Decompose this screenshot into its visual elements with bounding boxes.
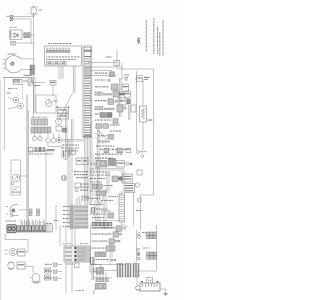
- wire horn bus: [25, 266, 33, 268]
- harness row 30: [85, 127, 91, 128]
- row y108 dot1: [124, 107, 126, 109]
- mr extra box y161: [101, 161, 106, 165]
- bmr row3 label: [92, 241, 94, 242]
- wire S1 to bus: [15, 42, 33, 44]
- magneto M1 sub: [11, 182, 14, 185]
- mr small y191b: [102, 191, 106, 195]
- left small box rows: [47, 227, 52, 231]
- harness row 2: [85, 58, 90, 59]
- harness row 17: [85, 95, 90, 96]
- mr row y208: [96, 209, 98, 210]
- stk row 2 xbox: [71, 210, 74, 213]
- wire drop x117: [116, 50, 118, 68]
- battery lead right: [160, 289, 166, 294]
- fr lamp y200: [137, 198, 141, 202]
- rr cluster2 text: [143, 248, 145, 249]
- rb bar y141: [98, 141, 110, 143]
- wire unit drop: [52, 85, 54, 96]
- heater bottom wire: [122, 222, 128, 227]
- bundle wire 3: [87, 138, 89, 205]
- bmr wire x110: [109, 243, 111, 265]
- legend line 4: [158, 32, 161, 35]
- rr cluster2 marks: [137, 252, 141, 260]
- text above fuse panel: [63, 243, 64, 244]
- junction box J1: [114, 60, 120, 66]
- switch contact pin 8: [68, 48, 69, 49]
- fuse panel labels: [65, 247, 73, 260]
- instrument bottom cluster: [29, 147, 55, 152]
- conn pair A2: [29, 213, 32, 216]
- harness row 10: [85, 78, 90, 79]
- rr cluster1 text: [142, 232, 144, 233]
- left label row 3: [63, 151, 64, 152]
- unit box top label: [51, 82, 56, 83]
- bulb B0: [56, 119, 62, 125]
- tail tick b: [6, 213, 8, 216]
- indicator bulb 2: [38, 137, 42, 141]
- rb diag fan: [95, 127, 108, 144]
- mr extra row y210: [101, 211, 103, 212]
- switch contact c7: [65, 50, 67, 52]
- stk row 1 label: [63, 206, 65, 207]
- rectifier D1 label: [10, 31, 11, 38]
- relay RB2 text: [59, 115, 68, 116]
- conn pair A1: [29, 209, 32, 212]
- resistor pack 2: [125, 264, 131, 278]
- tail lamp reflector: [10, 205, 18, 216]
- pilot conn x1: [14, 80, 16, 82]
- wire stop lamp hook: [31, 277, 33, 279]
- wire wr bus: [25, 251, 28, 253]
- mr diag fan: [90, 152, 101, 169]
- unit box top: [50, 81, 56, 86]
- mr right edge x133.5: [133, 193, 135, 226]
- wire inner bus x27: [26, 95, 28, 232]
- fr top label: [144, 77, 150, 78]
- mr dot y164: [130, 163, 132, 165]
- left label row 1: [62, 145, 64, 146]
- row y99 box1: [108, 99, 114, 105]
- magneto M1 arrow: [15, 177, 19, 180]
- small box tri: [28, 79, 33, 84]
- bm left row xbox 2: [54, 270, 57, 273]
- text above fuse panel r: [80, 243, 82, 244]
- mr bus y220.5: [95, 220, 120, 222]
- mr top row1 boxB: [117, 148, 122, 153]
- switch contact pin 2: [50, 48, 51, 49]
- band-end unit circles: [8, 227, 15, 231]
- resistor pack 1: [117, 264, 123, 278]
- headlamp LP1 reflector arc: [5, 56, 20, 73]
- label rows a3: [76, 177, 78, 178]
- rb box y124b: [103, 124, 109, 128]
- rear conn text a: [45, 270, 50, 271]
- wire PL2 lead: [8, 107, 18, 110]
- wire to packs: [101, 270, 117, 272]
- rr cluster2 pin: [137, 248, 140, 251]
- winker box text: [18, 251, 24, 252]
- RB pin b: [68, 106, 70, 108]
- row y79 text: [95, 80, 97, 81]
- mr row y174: [90, 175, 92, 176]
- switch contact c2: [49, 50, 51, 52]
- bm left row text 1: [45, 264, 48, 265]
- headlamp tick b: [3, 63, 5, 66]
- harness row 31: [85, 130, 91, 131]
- wire PL1 lead: [8, 97, 13, 100]
- tail tick a: [6, 205, 8, 208]
- mr box y160: [96, 161, 107, 168]
- bmr row3 box: [109, 239, 115, 244]
- bm left row wire 2: [57, 271, 62, 273]
- aux box dots: [148, 280, 152, 281]
- indicator bulb 1: [33, 137, 37, 141]
- bundle wire 1: [84, 138, 86, 205]
- indicator box C: [61, 62, 66, 65]
- wire left bus 2: [34, 77, 36, 113]
- stk row 2 bar: [75, 210, 89, 212]
- pilot lamp PL2: [18, 103, 24, 109]
- mr pair x104: [103, 189, 105, 229]
- left enclosure outline: [4, 78, 31, 151]
- switch contact pin 1: [47, 48, 48, 49]
- mr hatch y205: [91, 208, 95, 213]
- harness row 16: [85, 93, 91, 94]
- indicator box A text: [48, 63, 52, 64]
- stk row 1 xbox: [71, 206, 74, 209]
- rectifier D1 body: [10, 30, 23, 40]
- bmr hatch box: [90, 258, 95, 264]
- wire drop x122: [121, 63, 123, 81]
- band1 labels: [32, 117, 34, 118]
- small box tri text: [28, 85, 30, 86]
- small box y183: [75, 183, 81, 188]
- row y84 box1: [112, 84, 119, 90]
- band tick pair 7: [43, 220, 44, 226]
- band tick pair 6: [40, 220, 41, 226]
- bm xbox r2: [101, 279, 104, 282]
- label rows b2: [81, 187, 83, 188]
- lamp I5 stem: [53, 134, 55, 139]
- regulator text3: [125, 190, 134, 191]
- horn H1 outer arcs: [30, 6, 38, 15]
- stk row 5 bar: [75, 222, 89, 224]
- terminal strip dark band: [17, 226, 46, 232]
- fr cluster y210: [136, 210, 138, 211]
- mr bottom band: [92, 222, 112, 226]
- mr drop x124: [123, 169, 125, 185]
- harness row 25: [85, 115, 92, 116]
- stk left marks: [54, 220, 55, 221]
- mr box y184a: [92, 184, 97, 189]
- gauge G2: [61, 175, 66, 180]
- relay box RB1: [58, 108, 69, 114]
- coil scribble: [13, 187, 19, 190]
- switch contact pin 3: [53, 48, 54, 49]
- harness row 3: [85, 61, 90, 62]
- bm hook wire: [94, 289, 97, 294]
- harness row 22: [85, 107, 91, 108]
- bmr row1 box: [116, 226, 122, 231]
- wire fr x140.5: [140, 195, 142, 230]
- mr top row3: [95, 158, 97, 159]
- bundle wire 4: [88, 138, 90, 205]
- switch contact c4: [55, 50, 57, 52]
- fr lamp y200 ticks: [137, 199, 138, 202]
- regulator text2: [125, 188, 134, 189]
- bmr row2 wire: [91, 233, 113, 235]
- row y105 box1: [117, 105, 123, 112]
- gauge G1 needle: [47, 100, 51, 105]
- bmr row2 pin 1: [120, 233, 122, 235]
- bmr small box b: [101, 252, 106, 257]
- harness row 23: [85, 110, 90, 111]
- row y106 bar: [104, 108, 115, 110]
- switch contact c8: [68, 50, 70, 52]
- row y105 box2: [131, 105, 136, 112]
- mr bottom band text: [92, 227, 94, 228]
- wire fr jog: [141, 194, 154, 196]
- pl label a: [7, 93, 11, 94]
- wire lamp to conn b: [24, 69, 34, 71]
- bmr row4 box: [106, 246, 115, 251]
- mr pin y163: [126, 162, 129, 165]
- harness row 21: [85, 105, 91, 106]
- wire bm x60: [59, 225, 61, 246]
- triangle mark: [125, 77, 128, 80]
- row y72 box: [110, 72, 115, 77]
- indicator box B: [54, 62, 59, 65]
- heater ladder: [119, 194, 125, 222]
- fuse panel right marks: [78, 248, 86, 261]
- rb pair x97.5: [97, 130, 99, 200]
- left border low text: [46, 223, 48, 224]
- harness row 12: [85, 83, 91, 84]
- wire pair x73: [72, 119, 74, 140]
- mr bundle x95: [94, 200, 96, 226]
- fr wire y79: [135, 78, 137, 80]
- small box tri mark: [29, 80, 32, 83]
- stk diag fan: [76, 196, 83, 205]
- bmr row4 wire: [91, 247, 106, 249]
- band tick pair 1: [21, 220, 22, 226]
- gauge G2 hatch: [63, 176, 66, 181]
- wire CN2 to bus: [30, 34, 34, 36]
- harness top contact 4: [90, 50, 92, 52]
- instrument bottom text: [29, 154, 31, 155]
- mr row y198: [90, 198, 91, 199]
- mr row y204: [90, 204, 92, 205]
- row y94 dot2: [122, 93, 124, 95]
- label above headlamp: [8, 54, 16, 55]
- battery lead left: [137, 271, 140, 286]
- rr cluster2 grid: [147, 252, 157, 259]
- diamond stem: [47, 134, 49, 138]
- bmr row1 pin 1: [124, 227, 126, 229]
- stk row 6 bar: [75, 226, 89, 228]
- instrument sub-box: [36, 95, 56, 113]
- fuse panel FP outline: [64, 246, 90, 262]
- wire X1 to bus a: [13, 16, 34, 18]
- wire tail to bus: [19, 209, 28, 211]
- left top text y150: [30, 151, 31, 152]
- mr row y217: [92, 217, 94, 218]
- bundle wire 2: [85, 138, 87, 205]
- bmr wire x112: [111, 243, 113, 257]
- switch S1 body: [11, 41, 16, 45]
- pack drop 3: [102, 272, 104, 280]
- label rows b3: [80, 190, 82, 191]
- ignition coil box: [11, 160, 21, 195]
- harness dark block: [84, 66, 90, 78]
- mr pair x107: [106, 172, 108, 193]
- rb row y125: [110, 125, 111, 126]
- resistor R1: [140, 106, 147, 122]
- right cell text a: [77, 160, 81, 161]
- stop lamp rays: [32, 281, 41, 285]
- switch contact c5: [59, 50, 61, 52]
- rr cluster1 grid: [147, 232, 157, 239]
- indicator box A: [47, 62, 52, 65]
- rb pair x99: [98, 130, 100, 200]
- stk row 3 bar: [75, 214, 89, 216]
- bm connector low: [96, 284, 107, 290]
- mr drop x122: [121, 170, 123, 184]
- triangle label: [124, 75, 129, 76]
- mr text y185: [104, 185, 105, 186]
- mr bundle x99: [98, 202, 100, 226]
- wire bundle x72: [71, 139, 73, 228]
- switch contact pin 5: [59, 48, 60, 49]
- harness top contact 3: [88, 50, 90, 52]
- switch S1 contact: [12, 42, 14, 44]
- enclosure top label: [24, 75, 33, 76]
- pack drop 2: [99, 272, 101, 280]
- harness row 4: [85, 63, 90, 64]
- mr box y174 text1: [123, 176, 131, 177]
- rear conn text b: [45, 277, 50, 278]
- bmr row4 label: [92, 248, 94, 249]
- mr extra row y164: [90, 164, 92, 165]
- wire pair x130: [129, 105, 131, 120]
- heater top wire: [121, 191, 123, 194]
- left small box y225: [46, 225, 53, 232]
- conn pair B1: [37, 209, 40, 212]
- band tick pair 3: [28, 220, 29, 226]
- bm left row xbox 1: [54, 263, 57, 266]
- rb row y136: [98, 135, 100, 136]
- harness row 20: [85, 103, 90, 104]
- pilot conn x2: [17, 80, 19, 82]
- mr dark pin y178: [119, 177, 123, 181]
- regulator box: [124, 184, 135, 193]
- fuse panel divider pins: [74, 247, 76, 261]
- harness row 15: [85, 90, 91, 91]
- rr wire x136 down: [136, 230, 138, 262]
- connector hatch CN2a: [24, 33, 27, 38]
- indicator box B text: [55, 63, 59, 64]
- mr box y174: [123, 174, 133, 182]
- bundle tie y139.5: [62, 139, 84, 141]
- switch contact pin 7: [65, 48, 66, 49]
- connector hatch CN2b: [27, 33, 30, 38]
- fr lamp y185: [135, 183, 139, 187]
- headlamp LP1 bulb: [11, 62, 15, 66]
- scan edge shading: [0, 80, 1, 300]
- rb row y131: [110, 131, 112, 132]
- harness top contact 1: [84, 50, 86, 52]
- wire inner bus x28.5: [28, 110, 30, 232]
- bmr row5 pin2: [114, 259, 116, 261]
- row y80 sq: [108, 79, 111, 82]
- central box bottom edge: [83, 136, 92, 137]
- connector block CN3: [30, 65, 35, 75]
- harness row 29: [85, 125, 91, 126]
- wire pair x71.5: [71, 119, 73, 140]
- battery lead left hook: [136, 286, 140, 290]
- mr pair x109: [108, 172, 110, 193]
- row y92 xbox1: [95, 92, 98, 95]
- row y106 xbox1: [95, 107, 98, 110]
- wire horn stem: [33, 13, 35, 17]
- wire bm x90.5: [90, 225, 92, 264]
- wire y70 stub: [92, 70, 112, 72]
- row y98 box2: [118, 98, 126, 105]
- mr top row1 boxA: [104, 148, 109, 153]
- harness row 26: [85, 117, 90, 118]
- fr pin y156: [141, 155, 143, 157]
- center dark cluster text: [95, 114, 97, 115]
- wire x28 drop: [27, 240, 29, 253]
- pack bus y280: [93, 277, 112, 279]
- switch label row: [46, 56, 47, 57]
- harness row 33: [85, 134, 91, 135]
- mr row y213: [90, 214, 91, 215]
- mr row y178: [90, 178, 93, 179]
- bmr row1 wire: [91, 227, 116, 229]
- mr box y174 text2: [123, 178, 131, 179]
- bm left row wire 3: [57, 278, 62, 280]
- harness row 1: [85, 56, 91, 57]
- main switch text: [117, 163, 123, 164]
- row y101 dot: [115, 100, 117, 102]
- wire bm x75: [74, 225, 76, 262]
- harness row 8: [85, 73, 90, 74]
- wire bm x66: [65, 225, 67, 293]
- label y197: [84, 197, 90, 198]
- wire R1 down: [142, 122, 144, 150]
- pilot connector box: [13, 79, 22, 84]
- indicator box C text: [62, 63, 66, 64]
- wire x33 drop: [32, 267, 34, 274]
- stk row 6 xbox: [71, 226, 74, 229]
- wire left bus 3: [30, 19, 32, 44]
- mr box y184b: [98, 184, 103, 189]
- enclosure inner text: [8, 88, 10, 89]
- indicator lamp I6: [57, 138, 62, 143]
- bmr row3 wire: [91, 240, 109, 242]
- battery ground symbol: [164, 294, 168, 296]
- wire bus y62: [88, 62, 117, 64]
- pilot lamp PL1: [13, 97, 19, 103]
- regulator text1: [125, 185, 134, 186]
- connector X1 lower: [10, 18, 13, 21]
- row y106 xbox2: [100, 107, 103, 110]
- wr tick b: [5, 253, 7, 256]
- fr box y170: [137, 170, 142, 175]
- fuse box small: [71, 150, 76, 155]
- resistor R1 label: [148, 120, 153, 121]
